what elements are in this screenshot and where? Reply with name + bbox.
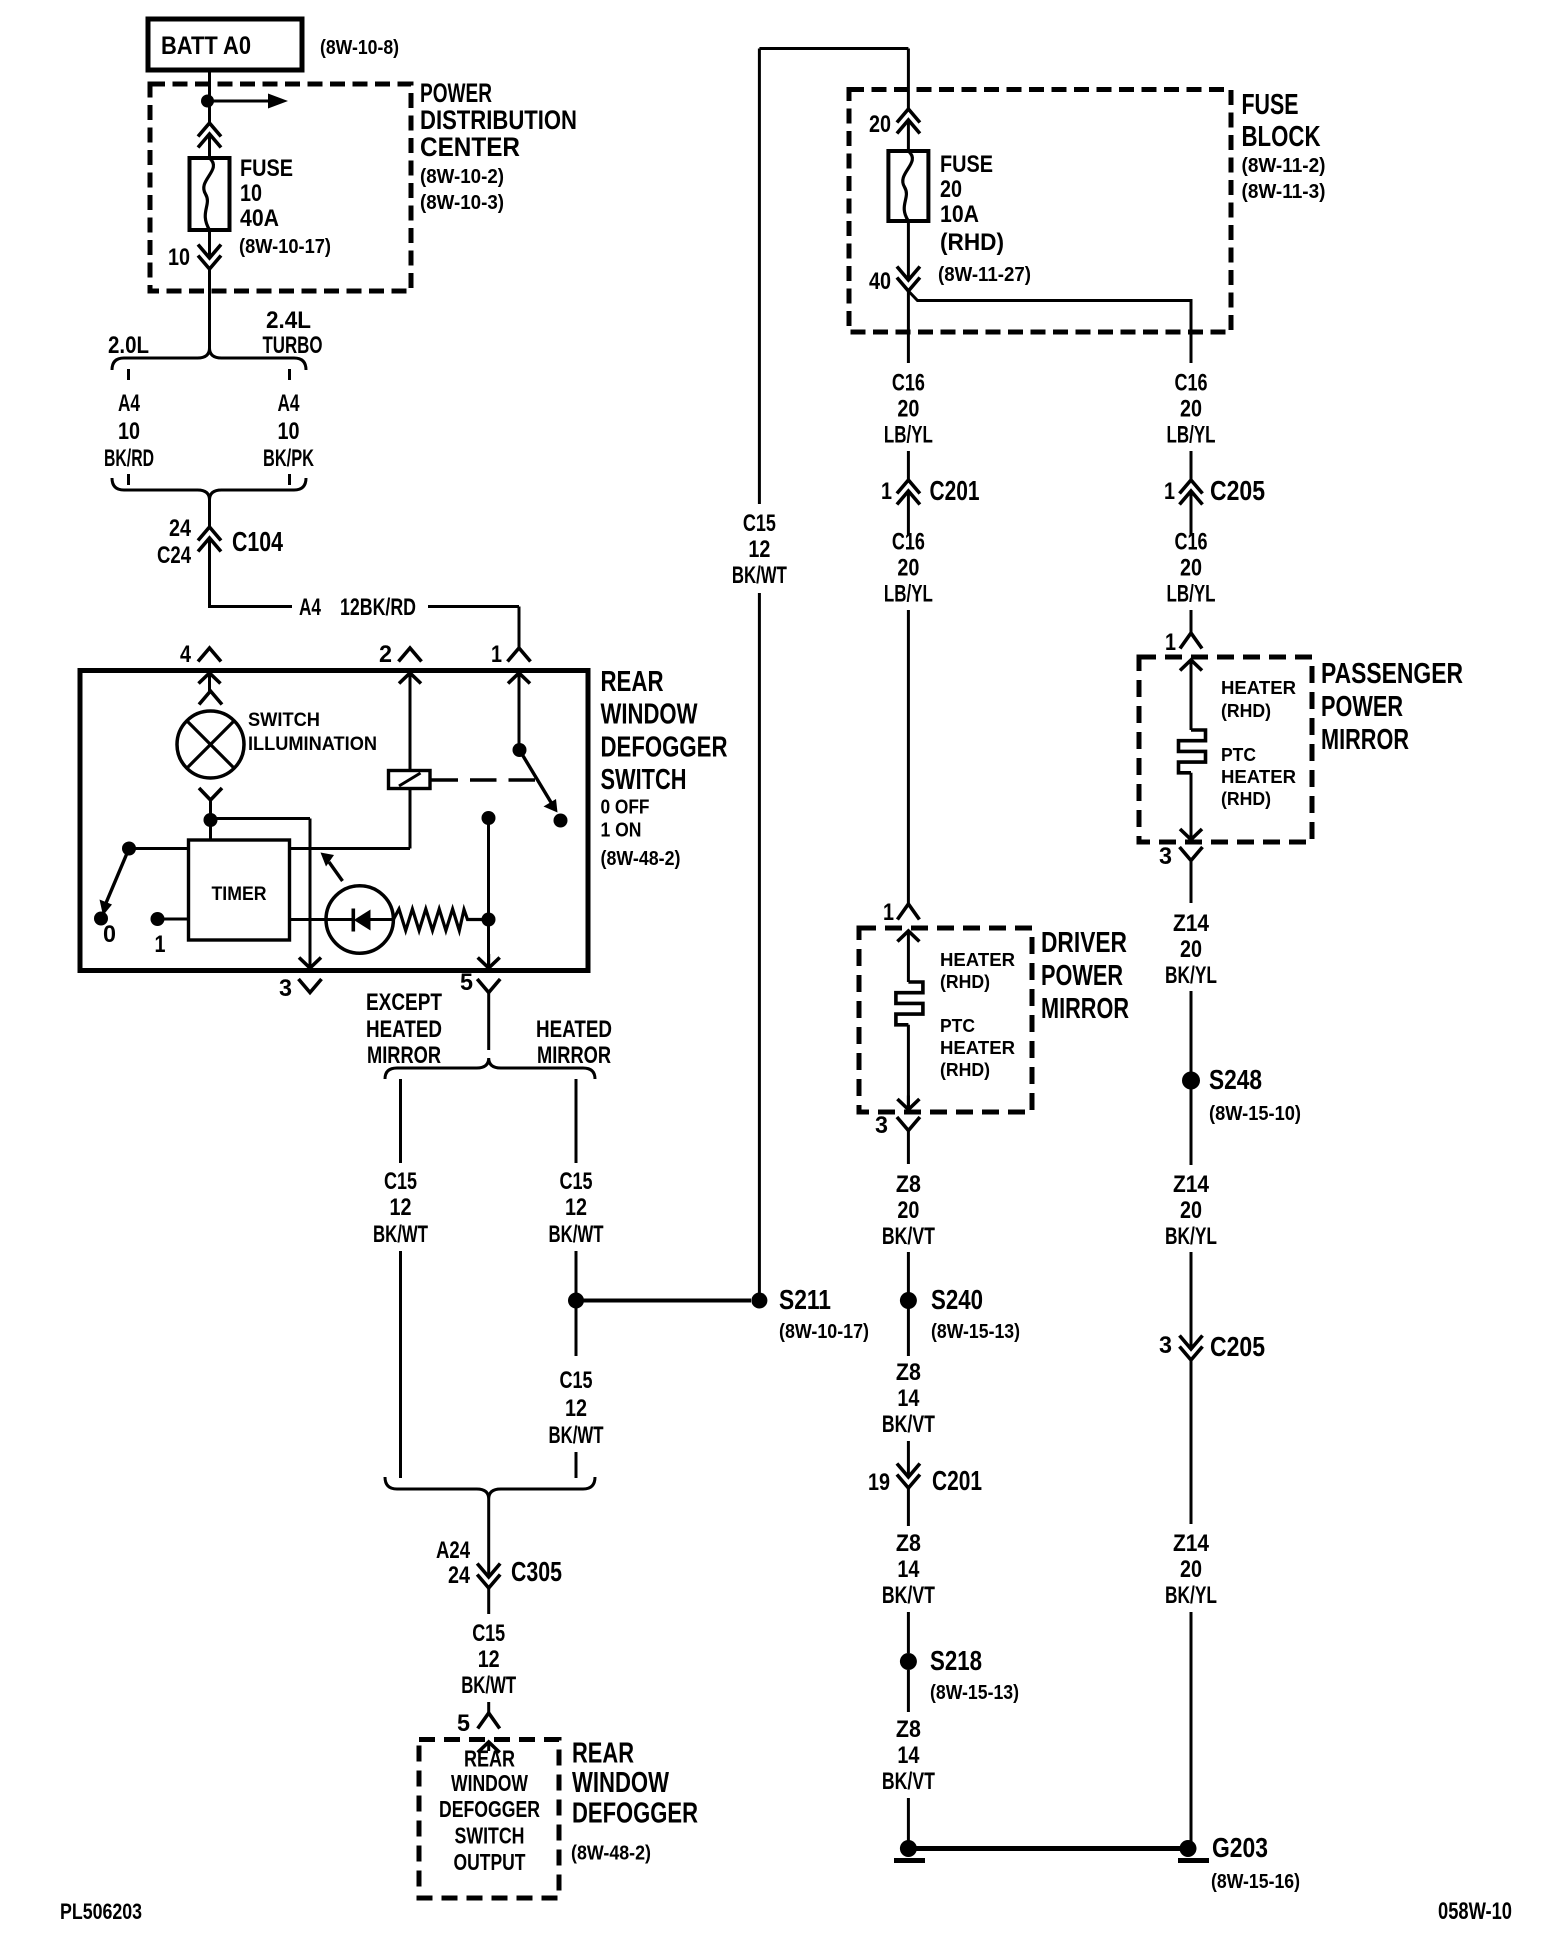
svg-text:20: 20: [1180, 555, 1202, 582]
svg-text:10A: 10A: [940, 201, 979, 228]
svg-text:C305: C305: [511, 1556, 562, 1587]
svg-text:(RHD): (RHD): [1221, 701, 1271, 721]
svg-text:PTC: PTC: [1221, 745, 1256, 765]
svg-text:12: 12: [478, 1646, 500, 1673]
node heated mirror feed dot: [482, 811, 496, 825]
wire down to pin 3: [309, 819, 312, 969]
svg-text:PASSENGER: PASSENGER: [1321, 658, 1463, 690]
svg-text:BK/YL: BK/YL: [1165, 962, 1217, 989]
wire heated branch below junction: [575, 1301, 578, 1357]
wire C15 feed lower: [758, 593, 761, 1301]
pin 3 male arrow: [299, 958, 321, 969]
wire element to pin 3 (passenger): [1190, 773, 1193, 840]
svg-text:PTC: PTC: [940, 1016, 975, 1036]
pin 3 male arrow (passenger mirror): [1180, 829, 1202, 840]
svg-text:HEATER: HEATER: [940, 950, 1015, 970]
wire fuse to pin 40: [907, 221, 910, 280]
svg-text:3: 3: [1159, 1332, 1172, 1359]
svg-text:(8W-10-2): (8W-10-2): [420, 166, 504, 188]
svg-text:C16: C16: [892, 529, 925, 556]
svg-text:20: 20: [897, 1197, 919, 1224]
node S248 splice dot: [1182, 1072, 1200, 1090]
svg-text:C16: C16: [892, 370, 925, 397]
svg-text:MIRROR: MIRROR: [1321, 724, 1409, 756]
PTC heater element (driver): [896, 982, 923, 1025]
svg-text:C15: C15: [384, 1168, 417, 1195]
node ground junction dot with bar: [900, 1840, 917, 1857]
svg-text:12: 12: [565, 1194, 587, 1221]
svg-text:(8W-10-3): (8W-10-3): [420, 192, 504, 214]
node resistor junction dot: [482, 913, 496, 927]
merge brace: [112, 478, 306, 500]
fuse F20 10A symbol: [888, 151, 928, 221]
wire S248 down: [1190, 1081, 1193, 1166]
rear window defogger switch box: [80, 671, 588, 971]
svg-text:BK/VT: BK/VT: [882, 1411, 935, 1438]
wire except-heated branch upper: [399, 1079, 402, 1163]
svg-text:C205: C205: [1210, 1331, 1265, 1362]
diode bar and triangle: [351, 909, 355, 932]
svg-text:20: 20: [1180, 936, 1202, 963]
PTC heater element (passenger): [1179, 730, 1206, 773]
svg-text:4: 4: [180, 641, 192, 668]
node G203 ground dot with bar: [1180, 1840, 1197, 1857]
svg-text:C15: C15: [472, 1620, 505, 1647]
split brace (engine variants): [112, 348, 306, 370]
svg-text:FUSE: FUSE: [240, 155, 293, 182]
wire to S248: [1190, 991, 1193, 1063]
svg-text:DEFOGGER: DEFOGGER: [601, 732, 728, 764]
wire fuse to pin 10: [208, 230, 211, 258]
svg-text:1: 1: [1165, 629, 1176, 656]
node junction dot with feed arrow: [201, 95, 214, 108]
svg-text:LB/YL: LB/YL: [884, 581, 933, 608]
svg-text:SWITCH: SWITCH: [248, 710, 320, 731]
wire pin2 to relay: [409, 673, 412, 771]
svg-text:14: 14: [897, 1742, 920, 1769]
svg-text:12: 12: [390, 1194, 412, 1221]
svg-text:10: 10: [118, 418, 140, 445]
pin 5 male arrow: [478, 958, 500, 969]
svg-text:5: 5: [460, 969, 473, 996]
svg-text:DEFOGGER: DEFOGGER: [439, 1796, 540, 1822]
svg-text:Z14: Z14: [1173, 1530, 1210, 1557]
svg-text:CENTER: CENTER: [420, 132, 520, 162]
svg-text:C24: C24: [157, 542, 192, 569]
svg-text:40A: 40A: [240, 205, 279, 232]
svg-text:5: 5: [457, 1710, 470, 1737]
wire timer to 0/1 switch: [129, 847, 189, 850]
wire to G203: [1190, 1612, 1193, 1849]
svg-text:ILLUMINATION: ILLUMINATION: [248, 734, 377, 755]
svg-text:Z8: Z8: [896, 1530, 921, 1557]
svg-text:POWER: POWER: [1041, 960, 1123, 992]
svg-text:12: 12: [748, 536, 770, 563]
svg-text:(8W-10-17): (8W-10-17): [779, 1321, 869, 1343]
wire split to right column: [908, 291, 1191, 363]
node BATT A0 feed box: [148, 19, 302, 70]
svg-text:BK/VT: BK/VT: [882, 1223, 935, 1250]
rear window defogger switch output dashed box: [419, 1740, 559, 1899]
wire to C201 19: [907, 1441, 910, 1477]
wire element to pin 3: [907, 1025, 910, 1110]
svg-text:REAR: REAR: [572, 1738, 634, 1770]
svg-text:C205: C205: [1210, 475, 1265, 506]
svg-text:14: 14: [897, 1385, 920, 1412]
pin 1 male arrow inside: [897, 931, 919, 942]
wire fuse block left output: [907, 291, 910, 363]
svg-text:A4: A4: [299, 594, 321, 621]
switch illumination lamp: [177, 711, 244, 778]
svg-text:HEATER: HEATER: [940, 1038, 1015, 1058]
wire C305 down: [487, 1588, 490, 1614]
svg-text:HEATER: HEATER: [1221, 767, 1296, 787]
timer box: [189, 840, 290, 940]
svg-text:(8W-48-2): (8W-48-2): [601, 848, 681, 870]
wire to C205 3: [1190, 1252, 1193, 1349]
connector male double chevron down (fuse block output): [897, 267, 920, 281]
relay coil box: [389, 771, 431, 789]
svg-text:C201: C201: [930, 475, 980, 506]
svg-text:C104: C104: [232, 526, 283, 557]
power distribution center dashed box: [150, 84, 411, 291]
svg-text:(8W-10-17): (8W-10-17): [239, 236, 331, 258]
node heated mirror junction dot: [568, 1293, 584, 1309]
wire to PTC element: [907, 945, 910, 982]
svg-text:(RHD): (RHD): [940, 229, 1004, 256]
svg-text:BK/VT: BK/VT: [882, 1582, 935, 1609]
wire junction to TIMER: [209, 820, 212, 840]
svg-text:FUSE: FUSE: [1242, 89, 1299, 121]
svg-text:LB/YL: LB/YL: [1167, 581, 1216, 608]
svg-text:40: 40: [869, 268, 891, 295]
svg-text:MIRROR: MIRROR: [1041, 993, 1129, 1025]
wire C205 3 down: [1190, 1360, 1193, 1524]
wire C15 feed from fuse block top: [759, 47, 908, 50]
switch arm to 0: [106, 849, 129, 904]
svg-text:S248: S248: [1209, 1064, 1262, 1095]
wire to C205: [1190, 451, 1193, 480]
svg-text:BK/YL: BK/YL: [1165, 1223, 1217, 1250]
svg-text:SWITCH: SWITCH: [455, 1823, 525, 1849]
LED arrow: [329, 862, 343, 881]
svg-text:Z14: Z14: [1173, 1171, 1210, 1198]
svg-text:20: 20: [1180, 1197, 1202, 1224]
svg-text:20: 20: [897, 396, 919, 423]
svg-text:2: 2: [379, 641, 392, 668]
svg-text:(8W-11-3): (8W-11-3): [1242, 181, 1326, 203]
wire long drop to driver mirror: [907, 610, 910, 904]
node contact end dot: [554, 814, 568, 828]
wire stub left: [127, 369, 130, 380]
wire junction to connector: [208, 101, 211, 123]
wire S218 down: [907, 1670, 910, 1712]
connector male double chevron (fuse block input): [897, 109, 920, 123]
wire pin1 to contact: [518, 673, 521, 750]
svg-text:C16: C16: [1175, 370, 1208, 397]
wire stub left lower: [127, 474, 130, 485]
svg-text:HEATED: HEATED: [366, 1016, 442, 1043]
wire elbow to switch pin 1: [210, 605, 293, 608]
node terminal 1 dot: [151, 912, 165, 926]
wire C201 19 down: [907, 1488, 910, 1526]
svg-text:10: 10: [278, 418, 300, 445]
svg-text:1: 1: [883, 899, 894, 926]
svg-text:(8W-15-10): (8W-15-10): [1209, 1103, 1301, 1125]
svg-text:C15: C15: [743, 510, 776, 537]
wire junction to S211: [576, 1299, 751, 1303]
wire to fuse 20: [907, 120, 910, 151]
svg-text:WINDOW: WINDOW: [601, 699, 698, 731]
svg-text:HEATER: HEATER: [1221, 678, 1296, 698]
svg-text:OUTPUT: OUTPUT: [454, 1849, 526, 1875]
svg-text:1: 1: [491, 641, 502, 668]
svg-text:C15: C15: [560, 1367, 593, 1394]
svg-text:Z8: Z8: [896, 1171, 921, 1198]
svg-text:HEATED: HEATED: [536, 1016, 612, 1043]
svg-text:14: 14: [897, 1556, 920, 1583]
svg-text:1: 1: [155, 931, 166, 958]
node S240 splice dot: [900, 1292, 917, 1309]
svg-text:C16: C16: [1175, 529, 1208, 556]
svg-text:(8W-15-13): (8W-15-13): [931, 1321, 1020, 1343]
svg-text:BK/PK: BK/PK: [263, 445, 314, 472]
wire to defogger output box: [487, 1702, 490, 1713]
lamp bottom female Y: [199, 788, 222, 800]
pin 1 male arrow inside: [1180, 660, 1202, 671]
svg-text:REAR: REAR: [601, 666, 664, 698]
svg-text:LB/YL: LB/YL: [1167, 422, 1216, 449]
connector male double chevron down (PDC output): [198, 245, 221, 259]
svg-text:BK/WT: BK/WT: [549, 1221, 604, 1248]
svg-text:G203: G203: [1212, 1832, 1268, 1863]
svg-text:2.0L: 2.0L: [108, 332, 149, 359]
svg-text:TURBO: TURBO: [263, 332, 323, 359]
svg-text:DRIVER: DRIVER: [1041, 927, 1127, 959]
svg-text:3: 3: [279, 975, 292, 1002]
node terminal 0 dot: [94, 912, 108, 926]
svg-text:12BK/RD: 12BK/RD: [340, 594, 416, 621]
fuse F10 40A symbol: [190, 158, 230, 230]
svg-text:DEFOGGER: DEFOGGER: [572, 1798, 698, 1830]
svg-text:20: 20: [940, 176, 962, 203]
driver power mirror dashed box: [859, 928, 1032, 1112]
svg-text:20: 20: [1180, 396, 1202, 423]
svg-text:S218: S218: [930, 1645, 982, 1676]
node S218 splice dot: [900, 1653, 917, 1670]
svg-text:(RHD): (RHD): [1221, 789, 1271, 809]
svg-text:FUSE: FUSE: [940, 151, 993, 178]
svg-text:BLOCK: BLOCK: [1242, 121, 1321, 153]
wire stub right: [288, 369, 291, 380]
svg-text:3: 3: [1159, 843, 1172, 870]
svg-text:12: 12: [565, 1395, 587, 1422]
connector C104 double chevron: [198, 527, 221, 541]
svg-text:TIMER: TIMER: [212, 884, 267, 905]
svg-text:20: 20: [1180, 1556, 1202, 1583]
svg-text:10: 10: [168, 244, 190, 271]
svg-text:19: 19: [868, 1469, 890, 1496]
svg-text:WINDOW: WINDOW: [451, 1770, 528, 1796]
svg-text:BK/WT: BK/WT: [732, 562, 787, 589]
svg-text:24: 24: [448, 1562, 471, 1589]
svg-text:C15: C15: [560, 1168, 593, 1195]
svg-text:0 OFF: 0 OFF: [601, 797, 650, 819]
svg-text:MIRROR: MIRROR: [367, 1042, 441, 1069]
wire heated branch to S-junction: [575, 1251, 578, 1301]
wire PDC to engine split: [208, 269, 211, 348]
dashed actuation line: [432, 778, 541, 781]
connector C305 double chevron down: [477, 1564, 500, 1578]
svg-text:SWITCH: SWITCH: [601, 764, 687, 796]
wire heated mirror drop: [487, 818, 490, 968]
svg-text:A4: A4: [118, 390, 140, 417]
svg-text:C201: C201: [932, 1465, 982, 1496]
wire except-heated branch lower: [399, 1251, 402, 1478]
merge brace to C305: [385, 1477, 595, 1499]
svg-text:BATT A0: BATT A0: [161, 32, 251, 60]
svg-text:PL506203: PL506203: [60, 1899, 142, 1924]
wire stub right lower: [288, 474, 291, 485]
wire brace to C104: [208, 500, 211, 527]
svg-text:(8W-15-13): (8W-15-13): [930, 1682, 1019, 1704]
svg-text:1 ON: 1 ON: [601, 820, 642, 842]
svg-text:BK/WT: BK/WT: [461, 1672, 516, 1699]
svg-text:S240: S240: [931, 1284, 983, 1315]
wire to fuse: [208, 134, 211, 158]
wire BATT to junction: [208, 70, 211, 101]
node switch pivot dot: [122, 842, 136, 856]
svg-text:DISTRIBUTION: DISTRIBUTION: [420, 105, 577, 135]
svg-text:(8W-11-27): (8W-11-27): [938, 264, 1031, 286]
svg-text:EXCEPT: EXCEPT: [366, 989, 442, 1016]
wire to PTC element (passenger): [1190, 674, 1193, 730]
wire C205 down: [1190, 491, 1193, 535]
svg-text:20: 20: [869, 111, 891, 138]
svg-text:POWER: POWER: [420, 78, 492, 108]
svg-text:BK/YL: BK/YL: [1165, 1582, 1217, 1609]
svg-text:MIRROR: MIRROR: [537, 1042, 611, 1069]
pin 3 male arrow (driver mirror): [897, 1099, 919, 1110]
resistor zigzag: [393, 909, 482, 931]
svg-text:BK/WT: BK/WT: [373, 1221, 428, 1248]
svg-text:BK/RD: BK/RD: [104, 445, 154, 472]
wire to S218: [907, 1612, 910, 1653]
node contact pivot dot: [513, 743, 527, 757]
svg-text:A24: A24: [436, 1537, 471, 1564]
svg-text:S211: S211: [779, 1284, 831, 1315]
wire brace to C305: [487, 1499, 490, 1577]
svg-text:(8W-48-2): (8W-48-2): [571, 1843, 651, 1865]
wire through diode: [326, 918, 353, 921]
svg-text:058W-10: 058W-10: [1438, 1898, 1512, 1925]
node S211 splice dot: [751, 1293, 767, 1309]
svg-text:Z8: Z8: [896, 1359, 921, 1386]
svg-text:(8W-11-2): (8W-11-2): [1242, 155, 1326, 177]
wire to ground junction: [907, 1798, 910, 1849]
svg-text:2.4L: 2.4L: [266, 307, 311, 334]
svg-text:(8W-10-8): (8W-10-8): [320, 37, 399, 59]
wire S240 down: [907, 1301, 910, 1357]
pin 5 male arrow inside: [478, 1742, 500, 1753]
wire to C201: [907, 451, 910, 480]
wire timer to relay coil line: [290, 847, 410, 850]
svg-text:LB/YL: LB/YL: [884, 422, 933, 449]
svg-text:24: 24: [169, 515, 192, 542]
svg-text:10: 10: [240, 180, 262, 207]
wire junction right to pin3 drop: [211, 817, 311, 820]
wire drop to passenger mirror: [1190, 610, 1193, 633]
svg-text:(RHD): (RHD): [940, 972, 990, 992]
svg-text:POWER: POWER: [1321, 691, 1403, 723]
wire feed down into fuse block: [907, 49, 910, 110]
wire heated branch upper: [575, 1079, 578, 1163]
svg-text:Z8: Z8: [896, 1716, 921, 1743]
lamp connector chevron: [199, 691, 222, 705]
svg-text:REAR: REAR: [464, 1746, 515, 1772]
svg-text:3: 3: [875, 1112, 888, 1139]
svg-text:BK/VT: BK/VT: [882, 1768, 935, 1795]
svg-text:20: 20: [897, 555, 919, 582]
wire relay to timer line: [409, 789, 412, 849]
svg-text:BK/WT: BK/WT: [549, 1422, 604, 1449]
connector male double chevron (PDC internal): [198, 123, 221, 137]
wire heated branch to merge brace: [575, 1452, 578, 1478]
svg-text:1: 1: [881, 478, 892, 505]
passenger power mirror dashed box: [1139, 657, 1312, 842]
wire to S240: [907, 1252, 910, 1301]
svg-text:WINDOW: WINDOW: [572, 1767, 669, 1799]
svg-text:0: 0: [103, 921, 116, 948]
wire ground bus: [908, 1846, 1188, 1851]
svg-text:Z14: Z14: [1173, 910, 1210, 937]
split brace heated mirror options: [385, 1058, 595, 1079]
LED diode circle: [326, 886, 393, 953]
node lamp junction dot: [204, 813, 218, 827]
svg-text:1: 1: [1164, 478, 1175, 505]
wire C201 down: [907, 491, 910, 535]
svg-text:A4: A4: [278, 390, 300, 417]
svg-text:(8W-15-16): (8W-15-16): [1211, 1871, 1300, 1893]
switch contact arm: [520, 750, 553, 804]
wire timer to LED line: [290, 918, 326, 921]
svg-text:(RHD): (RHD): [940, 1060, 990, 1080]
fuse block dashed box: [849, 90, 1231, 333]
